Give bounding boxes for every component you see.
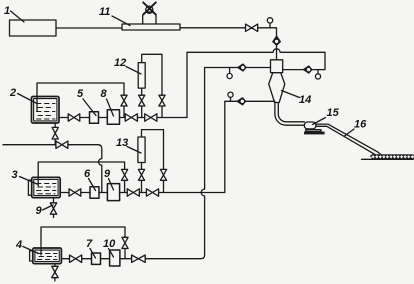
valve row2 c bbox=[145, 114, 157, 121]
valve row3 b bbox=[127, 189, 139, 196]
leader 5 bbox=[83, 99, 96, 116]
tank 3 dip tube + loop bbox=[38, 162, 124, 186]
heater 11 valve circle bbox=[146, 6, 153, 13]
tank4 drain stub bbox=[54, 264, 56, 267]
valve tank3 vapor bbox=[122, 169, 128, 180]
filter 7 bbox=[92, 253, 101, 264]
filter 5 bbox=[90, 112, 99, 123]
tank 2 dip tube + loop bbox=[37, 83, 124, 112]
valve on air line bbox=[246, 24, 258, 31]
leader 11 bbox=[112, 16, 130, 26]
svg-text:8: 8 bbox=[101, 88, 108, 100]
valve tank2 vapor bbox=[121, 95, 127, 106]
leader 7 bbox=[90, 249, 96, 259]
web surface band bbox=[372, 154, 414, 159]
valve tank4 drain bbox=[52, 266, 58, 277]
gauge point manifold bbox=[317, 70, 319, 74]
leader 9 pump bbox=[109, 179, 114, 191]
rotameter 12 bottom stub bbox=[141, 88, 143, 95]
valve 9 tank3 drain bbox=[50, 203, 56, 214]
tank 2 liquid bbox=[37, 104, 56, 120]
svg-text:4: 4 bbox=[15, 239, 22, 251]
pipe check to ejector bbox=[276, 45, 278, 60]
pump 9 bbox=[107, 184, 119, 201]
tank 4 liquid bbox=[38, 254, 58, 260]
row2 pipe segs bbox=[59, 117, 68, 119]
valve rotameter13 bypass bbox=[160, 169, 166, 180]
check valve left feed bbox=[238, 64, 246, 71]
rotameter 13 bottom stub bbox=[141, 163, 143, 170]
tank3 drain stub bbox=[53, 198, 55, 203]
hose from funnel bbox=[275, 103, 304, 126]
svg-text:10: 10 bbox=[103, 238, 116, 250]
applicator 15 base bbox=[304, 132, 325, 135]
pipe row3 riser to funnel bbox=[159, 101, 275, 192]
gauge point top bbox=[269, 23, 271, 28]
row3 pipe segs bbox=[60, 192, 69, 194]
svg-text:3: 3 bbox=[12, 169, 18, 181]
leader 3 bbox=[20, 177, 38, 185]
svg-text:16: 16 bbox=[354, 119, 367, 131]
heater 11 stand bbox=[143, 12, 156, 24]
check valve air bbox=[273, 36, 281, 45]
applicator 15 plate bbox=[306, 130, 321, 132]
valve row3 c bbox=[146, 189, 158, 196]
chute 16 tip flare bbox=[371, 152, 382, 156]
leader 14 bbox=[282, 91, 300, 98]
tank 3 tab bbox=[28, 180, 31, 195]
rotameter 13 top pipe bbox=[142, 130, 164, 170]
svg-text:9: 9 bbox=[104, 168, 111, 180]
leader 10 bbox=[109, 249, 114, 258]
pipe 1 to 11 bbox=[56, 27, 122, 29]
chute 16 lower line bbox=[316, 126, 375, 154]
check valve row3 riser bbox=[237, 98, 245, 105]
valve row4 b bbox=[132, 255, 146, 262]
applicator 15 body bbox=[304, 122, 316, 129]
manifold from row2 riser bbox=[187, 49, 325, 118]
filter 6 bbox=[90, 187, 99, 198]
leader 13 bbox=[127, 147, 141, 154]
leader 6 bbox=[89, 179, 96, 191]
tank 3 bbox=[32, 177, 61, 197]
svg-text:9: 9 bbox=[36, 205, 43, 217]
valve rotameter13 bottom bbox=[138, 169, 144, 180]
leader 1 bbox=[11, 11, 25, 22]
svg-text:14: 14 bbox=[299, 94, 311, 106]
leader 4 bbox=[23, 247, 39, 254]
leader 15 bbox=[313, 118, 326, 125]
funnel 14 bbox=[269, 73, 285, 103]
valve drain bbox=[56, 141, 68, 148]
svg-text:2: 2 bbox=[9, 87, 16, 99]
pump 10 bbox=[110, 250, 120, 266]
leader 2 bbox=[18, 94, 37, 104]
drain pipe to row3 bbox=[68, 145, 102, 193]
svg-text:5: 5 bbox=[77, 88, 84, 100]
stub bbox=[123, 106, 125, 118]
pipe 11 to valve bbox=[180, 27, 246, 29]
leader 16 bbox=[345, 129, 355, 136]
valve row2 b bbox=[125, 114, 137, 121]
heater 11 body bbox=[122, 24, 180, 30]
tank 4 dip tube + loop bbox=[41, 227, 125, 255]
svg-text:11: 11 bbox=[99, 6, 110, 18]
rotameter 12 bbox=[138, 63, 145, 89]
pump 8 bbox=[107, 110, 119, 124]
svg-text:12: 12 bbox=[114, 57, 126, 69]
valve rotameter12 bottom bbox=[139, 95, 145, 106]
ejector box bbox=[271, 60, 283, 73]
valve rotameter12 bypass bbox=[159, 95, 165, 106]
valve tank2 drain bbox=[52, 127, 58, 139]
tank 3 liquid bbox=[37, 184, 57, 194]
tank 2 bbox=[32, 97, 60, 124]
svg-text:1: 1 bbox=[4, 5, 10, 17]
heater 11 valve cross bbox=[143, 2, 156, 14]
leader 12 bbox=[126, 67, 141, 75]
rotameter 13 bbox=[138, 137, 145, 163]
tank 4 bbox=[33, 248, 62, 264]
pipe valve to corner bbox=[258, 28, 277, 37]
gauge point row3 riser bbox=[230, 97, 232, 101]
svg-text:6: 6 bbox=[84, 168, 91, 180]
svg-text:15: 15 bbox=[327, 107, 340, 119]
rotameter 12 top pipe bbox=[142, 54, 162, 95]
chute 16 upper line bbox=[316, 124, 378, 152]
valve row4 a bbox=[70, 255, 82, 262]
leader 8 bbox=[107, 99, 114, 116]
tank2 drain stub bbox=[54, 123, 56, 127]
gauge point left feed bbox=[229, 68, 231, 74]
valve row3 a bbox=[69, 189, 81, 196]
row4 pipe segs bbox=[61, 258, 69, 260]
valve tank4 vapor bbox=[122, 237, 128, 248]
surface baseline bbox=[362, 158, 414, 160]
leader 9 drain bbox=[43, 205, 54, 210]
vessel 1 bbox=[10, 20, 57, 36]
svg-text:13: 13 bbox=[116, 137, 128, 149]
valve row2 a bbox=[68, 114, 80, 121]
check valve manifold bbox=[304, 66, 312, 73]
tank 4 tab bbox=[30, 251, 33, 261]
drain pipe bbox=[3, 144, 56, 146]
pipe left feed with riser to row4 bbox=[145, 68, 270, 259]
